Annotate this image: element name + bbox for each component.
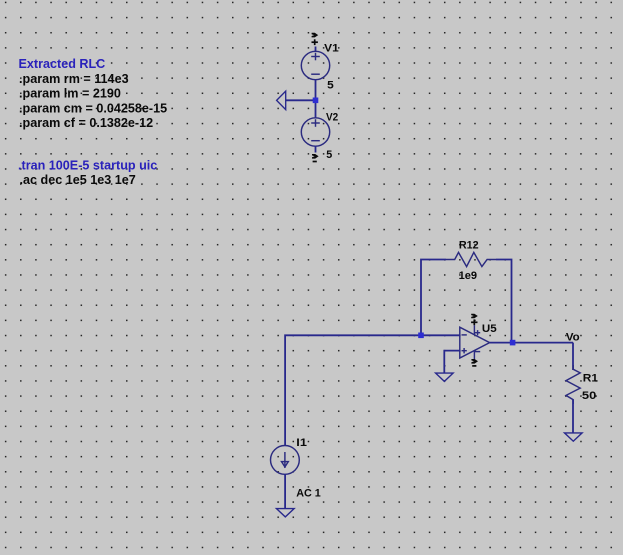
wire V1 top stub [315,47,317,53]
wire V1 bottom to V2 top [315,80,317,119]
current source I1 [271,446,300,475]
ground under R1 [565,433,583,441]
wire R1 to ground [572,400,574,433]
svg-text:.param cm = 0.04258e-15: .param cm = 0.04258e-15 [19,101,167,115]
svg-text:.param rm = 114e3: .param rm = 114e3 [19,72,129,86]
ground under op-amp input [436,373,454,381]
net label a- (rotated) at V2 bottom [312,154,319,159]
input port flag (left arrow) [277,91,286,109]
voltage source V2 [301,118,329,146]
svg-text:Extracted RLC: Extracted RLC [19,57,106,71]
wire Vo down to R1 [572,343,574,370]
wire feedback top right [496,260,512,343]
net label a+ (rotated) at V1 top [312,33,319,38]
net label a+ (rotated) at op-amp V+ pin [471,314,478,319]
resistor R1 [566,365,580,404]
wire op-amp output to Vo corner [490,342,573,344]
wire feedback top left [421,260,446,336]
op-amp U5 [460,325,490,360]
svg-text:5: 5 [327,79,334,91]
wire op-amp non-inverting input to ground [444,351,460,373]
wire V2 bottom stub [315,146,317,153]
junction node feedback/input [418,333,424,339]
junction node at V1/V2/port [313,98,319,104]
svg-text:V1: V1 [324,43,339,55]
svg-text:U5: U5 [482,323,497,335]
voltage source V1 [301,51,329,79]
resistor R12 [446,252,496,266]
svg-text:5: 5 [326,149,332,161]
svg-text:1e9: 1e9 [459,270,478,282]
wire port to junction [286,99,316,101]
svg-text:Vo: Vo [566,331,580,343]
svg-text:V2: V2 [326,112,338,124]
svg-text:I1: I1 [296,437,307,449]
ground under I1 [277,509,295,517]
svg-text:.param lm = 2190: .param lm = 2190 [19,87,121,101]
wire I1 bottom to ground [284,474,286,508]
svg-text:AC 1: AC 1 [296,488,321,500]
junction node at op-amp output [510,340,516,346]
wire I1 to op-amp inverting input [285,335,460,445]
svg-text:50: 50 [582,390,596,402]
svg-text:R12: R12 [459,240,479,252]
svg-text:.tran 100E-5 startup uic: .tran 100E-5 startup uic [18,158,157,172]
svg-text:.ac dec 1e5 1e3 1e7: .ac dec 1e5 1e3 1e7 [20,173,136,187]
svg-text:.param cf = 0.1382e-12: .param cf = 0.1382e-12 [19,116,153,130]
svg-text:R1: R1 [583,372,598,384]
net label a- (rotated) at op-amp V- pin [471,359,478,364]
